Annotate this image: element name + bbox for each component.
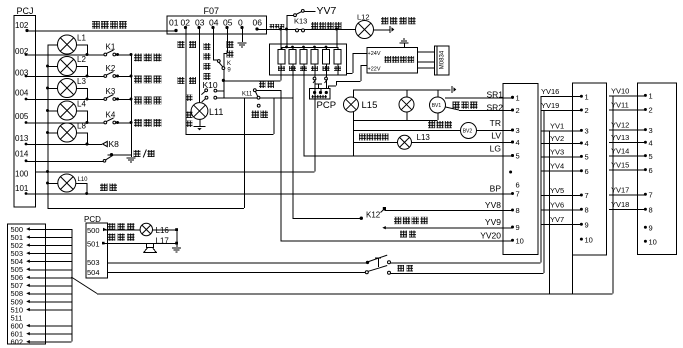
svg-text:05: 05 (223, 18, 233, 28)
svg-text:YV11: YV11 (611, 101, 629, 110)
svg-text:PCP: PCP (317, 100, 337, 111)
svg-text:2: 2 (516, 106, 520, 115)
svg-text:K8: K8 (109, 139, 120, 149)
svg-text:102: 102 (15, 21, 29, 30)
svg-text:TR: TR (490, 118, 501, 128)
svg-text:6: 6 (516, 181, 520, 190)
svg-text:602: 602 (11, 338, 24, 347)
svg-text:L17: L17 (156, 237, 170, 246)
svg-text:3: 3 (516, 126, 520, 135)
svg-text:YV18: YV18 (611, 200, 629, 209)
svg-text:5: 5 (516, 152, 520, 161)
svg-text:K1: K1 (106, 43, 116, 52)
svg-text:10: 10 (516, 237, 524, 246)
svg-text:4: 4 (585, 139, 589, 148)
svg-text:M0834: M0834 (440, 50, 446, 69)
svg-text:YV19: YV19 (541, 101, 559, 110)
svg-text:K13: K13 (294, 17, 307, 26)
svg-text:L13: L13 (417, 133, 431, 142)
svg-text:504: 504 (87, 268, 100, 277)
svg-text:L16: L16 (156, 226, 170, 235)
svg-text:8: 8 (649, 205, 653, 214)
svg-text:YV13: YV13 (611, 133, 629, 142)
svg-text:8: 8 (585, 206, 589, 215)
svg-text:YV15: YV15 (611, 161, 629, 170)
svg-text:YV2: YV2 (550, 134, 564, 143)
svg-text:K2: K2 (106, 64, 116, 73)
svg-text:L3: L3 (77, 77, 86, 86)
svg-text:YV5: YV5 (550, 186, 564, 195)
svg-text:4: 4 (649, 138, 653, 147)
svg-text:7: 7 (649, 191, 653, 200)
svg-text:L4: L4 (77, 100, 86, 109)
svg-text:F07: F07 (204, 6, 220, 16)
svg-text:L2: L2 (77, 55, 86, 64)
svg-text:013: 013 (15, 134, 29, 143)
svg-text:9: 9 (516, 223, 520, 232)
svg-text:YV12: YV12 (611, 121, 629, 130)
svg-text:YV16: YV16 (541, 87, 559, 96)
svg-text:LG: LG (490, 144, 501, 154)
svg-text:014: 014 (15, 150, 29, 159)
svg-text:501: 501 (87, 240, 100, 249)
svg-text:K10: K10 (203, 80, 218, 90)
svg-text:YV10: YV10 (611, 86, 629, 95)
svg-text:L1: L1 (77, 34, 86, 43)
svg-text:SR1: SR1 (486, 90, 503, 100)
svg-text:10: 10 (649, 237, 657, 246)
svg-text:L8: L8 (77, 122, 86, 131)
svg-text:3: 3 (585, 127, 589, 136)
svg-text:10: 10 (585, 235, 593, 244)
svg-text:5: 5 (585, 153, 589, 162)
svg-text:7: 7 (516, 190, 520, 199)
svg-text:503: 503 (87, 258, 100, 267)
svg-text:K12: K12 (366, 211, 381, 220)
svg-text:L10: L10 (78, 177, 89, 183)
svg-text:2: 2 (585, 106, 589, 115)
svg-text:YV7: YV7 (317, 5, 337, 17)
svg-text:YV1: YV1 (550, 121, 564, 130)
svg-text:101: 101 (15, 184, 29, 193)
svg-text:YV9: YV9 (485, 217, 501, 227)
svg-text:7: 7 (585, 191, 589, 200)
svg-text:LV: LV (491, 131, 501, 141)
svg-text:9: 9 (585, 220, 589, 229)
svg-text:004: 004 (15, 89, 29, 98)
svg-text:YV8: YV8 (485, 200, 501, 210)
svg-text:500: 500 (87, 226, 100, 235)
svg-text:9: 9 (649, 224, 653, 233)
svg-text:+22V: +22V (368, 67, 381, 73)
svg-text:L15: L15 (362, 100, 378, 111)
svg-text:L12: L12 (357, 13, 370, 22)
svg-text:K3: K3 (106, 87, 116, 96)
svg-text:3: 3 (649, 126, 653, 135)
svg-text:YV20: YV20 (480, 231, 501, 241)
svg-text:K4: K4 (106, 111, 116, 120)
svg-text:K: K (227, 61, 231, 67)
svg-text:BV2: BV2 (463, 128, 473, 134)
svg-text:100: 100 (15, 170, 29, 179)
svg-text:K11: K11 (242, 91, 253, 97)
svg-text:4: 4 (516, 138, 520, 147)
svg-text:+24V: +24V (368, 51, 381, 57)
svg-text:8: 8 (516, 206, 520, 215)
svg-text:04: 04 (209, 18, 219, 28)
svg-text:6: 6 (585, 167, 589, 176)
svg-text:1: 1 (649, 92, 653, 101)
svg-text:1: 1 (516, 93, 520, 102)
svg-text:2: 2 (649, 106, 653, 115)
svg-text:005: 005 (15, 112, 29, 121)
svg-text:5: 5 (649, 152, 653, 161)
svg-text:L11: L11 (209, 107, 223, 117)
svg-text:BV1: BV1 (432, 103, 442, 109)
svg-text:PCJ: PCJ (17, 6, 34, 16)
svg-text:YV6: YV6 (550, 200, 564, 209)
svg-text:YV4: YV4 (550, 162, 564, 171)
svg-text:1: 1 (585, 92, 589, 101)
svg-text:YV3: YV3 (550, 147, 564, 156)
svg-text:YV17: YV17 (611, 185, 629, 194)
svg-text:03: 03 (195, 18, 205, 28)
svg-text:YV14: YV14 (611, 147, 629, 156)
svg-text:YV7: YV7 (550, 215, 564, 224)
svg-text:6: 6 (649, 166, 653, 175)
svg-text:SR2: SR2 (486, 103, 503, 113)
svg-text:BP: BP (490, 184, 502, 194)
svg-text:01: 01 (169, 18, 179, 28)
svg-text:06: 06 (253, 18, 263, 28)
